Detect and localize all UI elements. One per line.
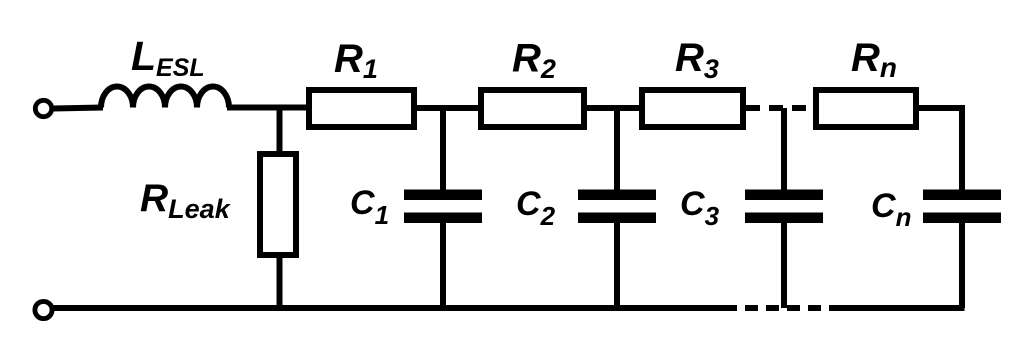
wire: node A down to R_Leak — [277, 108, 283, 153]
svg-text:R3: R3 — [675, 36, 719, 84]
capacitor Cn — [923, 190, 1001, 224]
wire: R1 to R2 — [414, 105, 481, 111]
svg-text:R1: R1 — [334, 37, 378, 84]
svg-text:C2: C2 — [516, 185, 556, 231]
wire: bottom rail dashed segment — [724, 305, 836, 311]
resistor R1 — [309, 90, 414, 127]
wire: node D down to C3 — [781, 108, 787, 192]
wire: node C down to C2 — [614, 108, 620, 192]
wire: bottom rail right solid segment — [830, 305, 965, 311]
wire: dashed continuation R3 to Rn — [746, 105, 813, 111]
capacitor C3 — [745, 190, 823, 224]
wire: top terminal to inductor — [54, 108, 104, 109]
resistor R3 — [642, 90, 743, 127]
resistor R2 — [481, 90, 584, 127]
wire: R_Leak to bottom rail — [277, 255, 283, 308]
resistor R_Leak — [260, 154, 296, 255]
svg-text:Cn: Cn — [871, 187, 911, 232]
svg-text:R2: R2 — [512, 37, 556, 85]
wire: C2 to bottom rail — [614, 221, 620, 308]
wire: C1 to bottom rail — [440, 221, 446, 308]
capacitor C2 — [578, 190, 656, 224]
wire: bottom rail left solid segment — [54, 305, 725, 311]
wire: Rn to Cn corner — [916, 108, 962, 192]
svg-text:RLeak: RLeak — [140, 177, 232, 224]
svg-text:Rn: Rn — [851, 36, 897, 83]
wire: Cn to bottom rail — [959, 221, 965, 308]
wire: R2 to R3 — [584, 105, 642, 111]
wire: C3 to bottom rail — [781, 221, 787, 308]
wire: node B down to C1 — [440, 108, 446, 192]
terminal J2 (bottom-left) — [35, 301, 52, 318]
capacitor C1 — [404, 190, 482, 224]
terminal J1 (top-left input) — [35, 100, 51, 116]
wire: inductor to resistor R1 — [227, 105, 308, 111]
svg-text:C1: C1 — [350, 184, 389, 230]
resistor Rn — [816, 90, 916, 127]
svg-text:C3: C3 — [680, 185, 720, 231]
inductor L_ESL — [101, 87, 229, 108]
svg-text:LESL: LESL — [131, 33, 205, 82]
